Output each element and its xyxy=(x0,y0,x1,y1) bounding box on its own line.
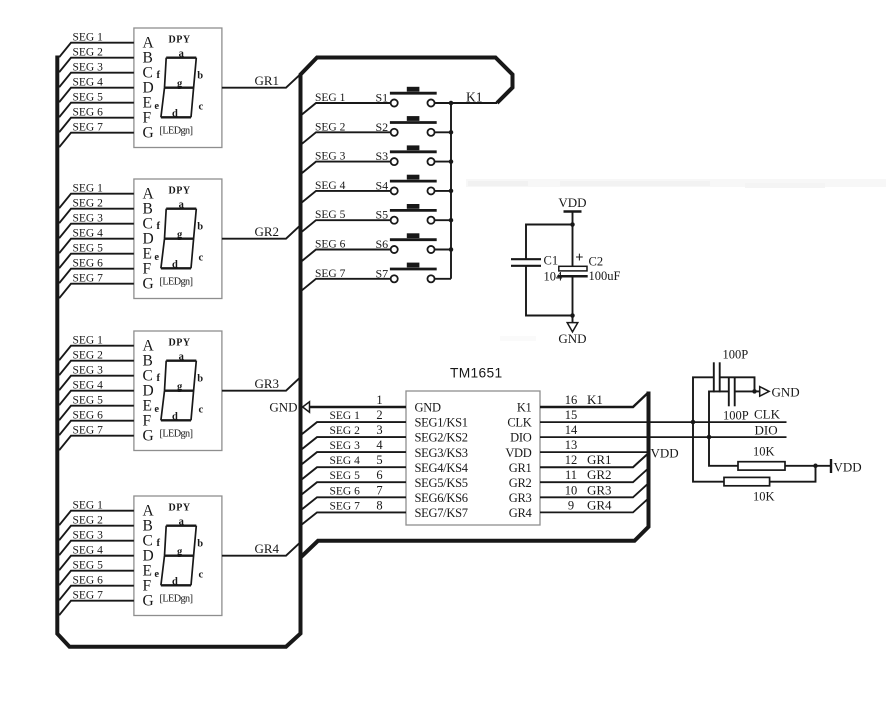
svg-text:SEG 5: SEG 5 xyxy=(330,470,361,482)
svg-text:d: d xyxy=(172,576,178,587)
svg-text:12: 12 xyxy=(565,453,578,467)
wire SEG2 from bus to switch S2 xyxy=(301,132,391,145)
wire SEG3 to DPY1 pin C xyxy=(59,73,134,88)
svg-text:7: 7 xyxy=(376,483,382,497)
wire SEG3 from bus to switch S3 xyxy=(301,162,391,175)
svg-text:GR2: GR2 xyxy=(509,476,532,490)
svg-text:a: a xyxy=(179,49,185,60)
svg-text:d: d xyxy=(172,259,178,270)
svg-text:GND: GND xyxy=(772,385,800,400)
wire SEG1 to DPY1 pin A xyxy=(59,43,134,58)
switch S5 (push button) xyxy=(390,204,437,224)
wire pin 12 GR1 to bus xyxy=(540,454,648,468)
junction dot DIO node xyxy=(707,435,712,440)
wire SEG6 to DPY4 pin F xyxy=(59,586,134,601)
svg-text:S6: S6 xyxy=(376,237,389,251)
display DPY4: 7-segment module xyxy=(134,496,222,616)
svg-text:e: e xyxy=(154,252,159,263)
svg-text:GR4: GR4 xyxy=(587,497,612,512)
svg-text:1: 1 xyxy=(376,393,382,407)
wire SEG2 to DPY2 pin B xyxy=(59,209,134,224)
svg-text:c: c xyxy=(198,253,203,264)
svg-text:S4: S4 xyxy=(376,178,389,192)
wire SEG7 to DPY4 pin G xyxy=(59,601,134,616)
wire SEG7 from bus to switch S7 xyxy=(301,279,391,292)
wire bus: left SEG bus / bottom link / mid bus / top K1 flag xyxy=(57,56,512,647)
wire pin 13 VDD to bus xyxy=(540,451,647,453)
svg-text:GR2: GR2 xyxy=(255,224,280,239)
wire pin 16 K1 to bus xyxy=(540,393,648,407)
svg-text:VDD: VDD xyxy=(651,446,679,461)
svg-text:c: c xyxy=(198,102,203,113)
svg-text:14: 14 xyxy=(565,423,578,437)
svg-text:SEG 7: SEG 7 xyxy=(73,273,104,285)
svg-text:2: 2 xyxy=(376,408,382,422)
svg-text:GR1: GR1 xyxy=(255,73,280,88)
svg-text:G: G xyxy=(143,593,154,610)
svg-text:[LEDgn]: [LEDgn] xyxy=(160,276,193,287)
svg-text:CLK: CLK xyxy=(754,407,781,422)
svg-text:9: 9 xyxy=(568,498,574,512)
wire SEG5 to DPY4 pin E xyxy=(59,571,134,586)
svg-text:SEG 1: SEG 1 xyxy=(73,335,104,347)
wire SEG4 to DPY4 pin D xyxy=(59,556,134,571)
svg-text:SEG 2: SEG 2 xyxy=(73,198,104,210)
wire DIO to C4 xyxy=(709,391,728,437)
svg-text:a: a xyxy=(179,200,185,211)
switch S3 (push button) xyxy=(390,145,437,165)
wire SEG5 to DPY3 pin E xyxy=(59,406,134,421)
wire DIO to R1 xyxy=(709,437,738,466)
svg-text:4: 4 xyxy=(376,438,383,452)
svg-text:b: b xyxy=(197,374,203,385)
wire SEG1 to DPY2 pin A xyxy=(59,194,134,209)
resistor R2 10K xyxy=(724,477,770,485)
wire SEG4 to DPY1 pin D xyxy=(59,88,134,103)
svg-text:SEG 7: SEG 7 xyxy=(73,425,104,437)
svg-text:e: e xyxy=(154,404,159,415)
svg-text:SEG 6: SEG 6 xyxy=(73,107,104,119)
wire SEG4 from bus to switch S4 xyxy=(301,191,391,204)
svg-text:d: d xyxy=(172,411,178,422)
svg-text:10K: 10K xyxy=(753,490,775,504)
svg-text:SEG 1: SEG 1 xyxy=(330,410,361,422)
svg-text:100uF: 100uF xyxy=(589,269,621,283)
wire pin 14 DIO line xyxy=(540,436,787,438)
svg-text:SEG 1: SEG 1 xyxy=(73,32,104,44)
svg-text:GR3: GR3 xyxy=(587,482,612,497)
wire C4 to GND arrow xyxy=(735,390,754,392)
svg-text:SEG 6: SEG 6 xyxy=(73,575,104,587)
svg-text:SEG 5: SEG 5 xyxy=(315,209,346,221)
wire SEG6 from bus to switch S6 xyxy=(301,250,391,263)
svg-text:g: g xyxy=(177,547,183,558)
IC U1 TM1651 body xyxy=(406,391,540,525)
power symbol VDD (right) xyxy=(831,459,862,475)
wire GR2 from DPY2 to bus xyxy=(222,225,301,239)
svg-text:SEG 4: SEG 4 xyxy=(315,180,346,192)
wire SEG1 to DPY4 pin A xyxy=(59,511,134,526)
svg-text:SEG 7: SEG 7 xyxy=(330,500,361,512)
wire C1 to GND node xyxy=(526,266,573,316)
svg-text:SEG2/KS2: SEG2/KS2 xyxy=(415,431,468,445)
wire switch S3 to K1 column xyxy=(435,161,451,163)
junction dot K1 column row 2 xyxy=(449,130,454,135)
wire CLK to C3 xyxy=(693,377,713,422)
svg-text:SEG 3: SEG 3 xyxy=(315,151,346,163)
wire SEG6 to DPY1 pin F xyxy=(59,118,134,133)
svg-text:13: 13 xyxy=(565,438,578,452)
wire pin 2 SEG1 to bus xyxy=(301,422,406,435)
svg-text:K1: K1 xyxy=(517,401,532,415)
wire GR3 from DPY3 to bus xyxy=(222,377,301,391)
resistor R1 10K xyxy=(738,462,785,470)
svg-text:SEG 6: SEG 6 xyxy=(315,239,346,251)
svg-text:c: c xyxy=(198,405,203,416)
ground arrow (caps) xyxy=(755,385,800,400)
svg-text:SEG 4: SEG 4 xyxy=(73,77,104,89)
wire pin 9 GR4 to bus xyxy=(540,499,648,513)
wire switch S2 to K1 column xyxy=(435,131,451,133)
junction dot K1 column row 6 xyxy=(449,247,454,252)
svg-text:CLK: CLK xyxy=(507,416,531,430)
wire pin 11 GR2 to bus xyxy=(540,469,648,482)
svg-text:[LEDgn]: [LEDgn] xyxy=(160,125,193,136)
junction dot K1 column row 4 xyxy=(449,189,454,194)
svg-text:GND: GND xyxy=(558,331,586,346)
ground symbol (below C1/C2) xyxy=(558,316,586,347)
wire SEG1 from bus to switch S1 xyxy=(301,103,391,116)
svg-text:SEG 5: SEG 5 xyxy=(73,560,104,572)
svg-text:100P: 100P xyxy=(723,348,749,362)
wire switch S7 to K1 column xyxy=(435,278,451,280)
svg-text:K1: K1 xyxy=(466,90,483,105)
svg-text:g: g xyxy=(177,230,183,241)
junction dot pull-up VDD node xyxy=(813,464,818,469)
switch S1 (push button) xyxy=(390,87,437,107)
svg-text:SEG6/KS6: SEG6/KS6 xyxy=(415,491,468,505)
svg-text:SEG 3: SEG 3 xyxy=(73,213,104,225)
wire SEG4 to DPY2 pin D xyxy=(59,239,134,254)
svg-text:SEG 3: SEG 3 xyxy=(330,440,361,452)
svg-text:a: a xyxy=(179,352,185,363)
svg-text:e: e xyxy=(154,101,159,112)
wire GR1 from DPY1 to bus xyxy=(222,74,301,88)
svg-text:f: f xyxy=(157,70,161,81)
svg-text:G: G xyxy=(143,276,154,293)
svg-text:SEG 1: SEG 1 xyxy=(315,92,346,104)
svg-text:S5: S5 xyxy=(376,208,389,222)
wire K1 to bus flag xyxy=(451,102,497,104)
wire pin 7 SEG6 to bus xyxy=(301,497,406,510)
switch S6 (push button) xyxy=(390,233,437,253)
faint scan artifact streak xyxy=(466,179,886,341)
svg-text:SEG 4: SEG 4 xyxy=(330,455,361,467)
svg-text:S2: S2 xyxy=(376,120,389,134)
wire C3 to GND arrow xyxy=(720,377,754,391)
wire pin 1 GND xyxy=(310,406,407,408)
svg-text:GR3: GR3 xyxy=(255,376,280,391)
svg-text:8: 8 xyxy=(376,498,382,512)
wire switch S6 to K1 column xyxy=(435,249,451,251)
svg-text:SEG 3: SEG 3 xyxy=(73,530,104,542)
wire switch S5 to K1 column xyxy=(435,219,451,221)
svg-text:[LEDgn]: [LEDgn] xyxy=(160,428,193,439)
wire pin 3 SEG2 to bus xyxy=(301,437,406,450)
svg-text:SEG 4: SEG 4 xyxy=(73,380,104,392)
svg-text:SEG 4: SEG 4 xyxy=(73,228,104,240)
svg-text:e: e xyxy=(154,569,159,580)
wire pin 10 GR3 to bus xyxy=(540,484,648,498)
wire SEG3 to DPY3 pin C xyxy=(59,376,134,391)
svg-text:DIO: DIO xyxy=(510,431,532,445)
svg-text:VDD: VDD xyxy=(505,446,531,460)
capacitor C2 (polarized) plates xyxy=(559,266,587,271)
svg-text:SEG 4: SEG 4 xyxy=(73,545,104,557)
junction dot K1 column row 1 xyxy=(449,101,454,106)
wire pin 15 CLK line xyxy=(540,421,787,423)
svg-text:+: + xyxy=(575,250,583,266)
svg-text:G: G xyxy=(143,125,154,142)
svg-text:C1: C1 xyxy=(544,254,559,268)
svg-text:5: 5 xyxy=(376,453,382,467)
wire GR4 from DPY4 to bus xyxy=(222,542,301,556)
wire CLK to R2 xyxy=(693,422,724,482)
svg-text:SEG 7: SEG 7 xyxy=(73,122,104,134)
svg-text:SEG 5: SEG 5 xyxy=(73,92,104,104)
svg-text:S7: S7 xyxy=(376,266,389,280)
capacitor C1 plates xyxy=(511,258,541,260)
svg-text:SEG 5: SEG 5 xyxy=(73,395,104,407)
junction dot CLK node xyxy=(691,420,696,425)
svg-text:GND: GND xyxy=(269,400,297,415)
ground arrow at pin 1 xyxy=(303,402,310,412)
power symbol VDD (top) xyxy=(558,195,586,225)
svg-text:10: 10 xyxy=(565,483,578,497)
svg-text:10K: 10K xyxy=(753,445,775,459)
svg-text:DPY: DPY xyxy=(169,35,191,46)
svg-text:C2: C2 xyxy=(589,255,604,269)
svg-text:SEG 5: SEG 5 xyxy=(73,243,104,255)
svg-text:b: b xyxy=(197,222,203,233)
wire pin 4 SEG3 to bus xyxy=(301,452,406,465)
svg-text:G: G xyxy=(143,428,154,445)
svg-text:GR4: GR4 xyxy=(509,506,533,520)
wire SEG4 to DPY3 pin D xyxy=(59,391,134,406)
svg-text:S1: S1 xyxy=(376,91,389,105)
svg-text:TM1651: TM1651 xyxy=(450,366,502,381)
svg-text:SEG 2: SEG 2 xyxy=(73,47,104,59)
svg-text:SEG 1: SEG 1 xyxy=(73,500,104,512)
junction dot VDD node xyxy=(570,222,575,227)
svg-text:100P: 100P xyxy=(723,409,749,423)
svg-text:DPY: DPY xyxy=(169,503,191,514)
svg-text:SEG3/KS3: SEG3/KS3 xyxy=(415,446,468,460)
svg-text:GND: GND xyxy=(415,401,441,415)
svg-text:c: c xyxy=(198,570,203,581)
wire SEG2 to DPY4 pin B xyxy=(59,526,134,541)
wire SEG5 to DPY1 pin E xyxy=(59,103,134,118)
wire SEG6 to DPY2 pin F xyxy=(59,269,134,284)
switch S7 (push button) xyxy=(390,263,437,283)
wire SEG3 to DPY4 pin C xyxy=(59,541,134,556)
svg-text:K1: K1 xyxy=(587,392,603,407)
svg-text:SEG1/KS1: SEG1/KS1 xyxy=(415,416,468,430)
svg-text:SEG 6: SEG 6 xyxy=(73,410,104,422)
svg-text:GR3: GR3 xyxy=(509,491,532,505)
svg-text:DPY: DPY xyxy=(169,338,191,349)
svg-text:a: a xyxy=(179,517,185,528)
svg-text:DPY: DPY xyxy=(169,186,191,197)
svg-text:GR2: GR2 xyxy=(587,467,612,482)
svg-text:SEG 7: SEG 7 xyxy=(315,268,346,280)
capacitor C3 100P plates xyxy=(713,362,715,392)
svg-text:SEG 2: SEG 2 xyxy=(73,515,104,527)
wire SEG7 to DPY2 pin G xyxy=(59,284,134,299)
svg-text:d: d xyxy=(172,108,178,119)
switch S2 (push button) xyxy=(390,116,437,136)
wire C2 to GND node xyxy=(572,276,574,315)
svg-text:6: 6 xyxy=(376,468,382,482)
svg-text:f: f xyxy=(157,373,161,384)
svg-text:3: 3 xyxy=(376,423,382,437)
wire K1 column (vertical) xyxy=(450,103,452,279)
svg-text:SEG 3: SEG 3 xyxy=(73,365,104,377)
svg-text:g: g xyxy=(177,382,183,393)
wire R1 to VDD xyxy=(785,465,831,467)
wire switch S4 to K1 column xyxy=(435,190,451,192)
wire pin 8 SEG7 to bus xyxy=(301,512,406,525)
svg-text:GR4: GR4 xyxy=(255,541,280,556)
display DPY2: 7-segment module xyxy=(134,179,222,299)
wire SEG5 to DPY2 pin E xyxy=(59,254,134,269)
svg-text:[LEDgn]: [LEDgn] xyxy=(160,593,193,604)
svg-text:16: 16 xyxy=(565,393,578,407)
wire SEG3 to DPY2 pin C xyxy=(59,224,134,239)
wire pin 6 SEG5 to bus xyxy=(301,482,406,495)
svg-text:VDD: VDD xyxy=(558,195,586,210)
svg-text:SEG 3: SEG 3 xyxy=(73,62,104,74)
svg-text:GR1: GR1 xyxy=(587,452,612,467)
svg-text:b: b xyxy=(197,71,203,82)
junction dot K1 column row 3 xyxy=(449,159,454,164)
wire VDD node to C2 xyxy=(572,225,574,267)
wire bus: branch from mid bus to right-side bus (GR/K1) xyxy=(301,392,649,558)
svg-text:SEG5/KS5: SEG5/KS5 xyxy=(415,476,468,490)
svg-text:SEG4/KS4: SEG4/KS4 xyxy=(415,461,469,475)
svg-text:DIO: DIO xyxy=(755,423,778,438)
svg-text:SEG 6: SEG 6 xyxy=(73,258,104,270)
wire SEG5 from bus to switch S5 xyxy=(301,220,391,233)
svg-text:SEG 7: SEG 7 xyxy=(73,590,104,602)
svg-text:SEG 2: SEG 2 xyxy=(330,425,361,437)
wire SEG2 to DPY3 pin B xyxy=(59,361,134,376)
svg-text:SEG7/KS7: SEG7/KS7 xyxy=(415,506,468,520)
svg-text:11: 11 xyxy=(565,468,577,482)
svg-text:15: 15 xyxy=(565,408,578,422)
wire SEG7 to DPY1 pin G xyxy=(59,133,134,148)
display DPY3: 7-segment module xyxy=(134,331,222,451)
svg-text:VDD: VDD xyxy=(834,460,862,475)
svg-text:SEG 2: SEG 2 xyxy=(315,121,346,133)
svg-text:SEG 1: SEG 1 xyxy=(73,183,104,195)
svg-text:GR1: GR1 xyxy=(509,461,532,475)
svg-text:g: g xyxy=(177,79,183,90)
svg-text:f: f xyxy=(157,221,161,232)
svg-text:S3: S3 xyxy=(376,149,389,163)
junction dot GND node xyxy=(570,313,575,318)
wire SEG6 to DPY3 pin F xyxy=(59,421,134,436)
wire pin 5 SEG4 to bus xyxy=(301,467,406,480)
switch S4 (push button) xyxy=(390,175,437,195)
svg-text:SEG 2: SEG 2 xyxy=(73,350,104,362)
svg-text:f: f xyxy=(157,538,161,549)
wire SEG1 to DPY3 pin A xyxy=(59,346,134,361)
wire VDD node to C1 xyxy=(526,225,573,260)
svg-text:SEG 6: SEG 6 xyxy=(330,485,361,497)
display DPY1: 7-segment module xyxy=(134,28,222,148)
wire SEG7 to DPY3 pin G xyxy=(59,436,134,451)
wire switch S1 to K1 column xyxy=(435,102,451,104)
junction dot caps GND node xyxy=(752,389,757,394)
svg-text:b: b xyxy=(197,539,203,550)
wire R2 to pull-up node xyxy=(770,466,816,482)
capacitor C4 100P plates xyxy=(728,377,730,406)
junction dot K1 column row 5 xyxy=(449,218,454,223)
wire SEG2 to DPY1 pin B xyxy=(59,58,134,72)
